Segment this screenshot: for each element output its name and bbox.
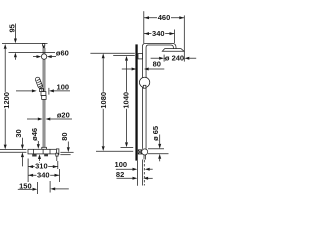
svg-text:ø20: ø20 bbox=[57, 111, 70, 120]
dim 100 (right view) bbox=[115, 160, 153, 171]
ext line head right bbox=[183, 15, 185, 61]
svg-text:310: 310 bbox=[35, 162, 48, 171]
dim ø65 bbox=[151, 126, 161, 161]
dim 310 bbox=[28, 159, 58, 183]
dim 95 bbox=[8, 24, 17, 60]
dim 80 (left view) bbox=[60, 132, 70, 152]
fitting below bar right bbox=[44, 154, 48, 156]
hand shower ball (side) bbox=[139, 77, 149, 88]
dim ø240 bbox=[151, 54, 197, 63]
supply pipe below valve bbox=[143, 155, 146, 186]
ø46 flange bbox=[42, 147, 47, 149]
dim ø20 bbox=[27, 111, 72, 121]
svg-text:30: 30 bbox=[14, 129, 23, 137]
dim 1080 bbox=[90, 53, 134, 151]
shower head side view bbox=[162, 49, 184, 52]
svg-text:100: 100 bbox=[57, 83, 70, 92]
spout center reference bbox=[38, 154, 41, 163]
ext line pipe (top) bbox=[143, 11, 145, 43]
holder clamp bbox=[41, 92, 46, 96]
supply center dashed bbox=[143, 160, 145, 186]
dim 1040 bbox=[113, 56, 135, 148]
riser pipe + arm inner bbox=[146, 45, 173, 149]
dim 340 (right view) bbox=[144, 29, 175, 43]
svg-text:1040: 1040 bbox=[122, 92, 131, 109]
ext line column top (left view) bbox=[2, 43, 48, 45]
wall bracket bbox=[138, 54, 143, 59]
dim 460 bbox=[144, 13, 184, 22]
dim 1200 bbox=[2, 44, 11, 149]
ext line holder top (left view) bbox=[9, 51, 56, 53]
svg-text:340: 340 bbox=[152, 29, 165, 38]
dim ø60 bbox=[33, 49, 69, 59]
svg-text:ø 65: ø 65 bbox=[151, 126, 160, 141]
valve ext lines bbox=[148, 149, 169, 154]
svg-text:1200: 1200 bbox=[2, 92, 11, 109]
svg-text:82: 82 bbox=[116, 170, 124, 179]
fitting below bar left bbox=[32, 154, 36, 157]
dim 340 (left view) bbox=[28, 169, 59, 182]
mixer bar bbox=[28, 149, 56, 154]
shower column cap bbox=[43, 44, 45, 49]
hose piece below right cap bbox=[56, 153, 58, 156]
dim 100 (left view) bbox=[16, 83, 70, 95]
riser pipe + arm outer bbox=[143, 43, 176, 149]
dim 30 bbox=[14, 129, 24, 166]
wall bbox=[135, 44, 137, 160]
hand shower handle + knob bbox=[40, 87, 44, 91]
mixer right end cap bbox=[56, 149, 59, 155]
ball joint bbox=[41, 54, 46, 59]
ext lines mixer (left side) bbox=[0, 150, 26, 153]
svg-text:100: 100 bbox=[115, 160, 128, 169]
svg-text:460: 460 bbox=[158, 13, 171, 22]
slider bbox=[42, 96, 46, 100]
hand shower head bbox=[35, 77, 43, 89]
dim 82 bbox=[116, 170, 153, 180]
svg-text:80: 80 bbox=[153, 60, 161, 69]
svg-text:ø60: ø60 bbox=[56, 49, 69, 58]
svg-text:80: 80 bbox=[60, 132, 69, 140]
svg-text:340: 340 bbox=[37, 171, 50, 180]
ext line mixer axis (right side) bbox=[60, 151, 73, 153]
svg-text:95: 95 bbox=[8, 24, 17, 32]
wall lower line bbox=[137, 161, 139, 186]
svg-text:ø46: ø46 bbox=[30, 128, 39, 141]
valve body ø65 bbox=[138, 149, 148, 155]
dim 80 (right view) bbox=[122, 60, 165, 71]
svg-text:ø 240: ø 240 bbox=[165, 54, 184, 63]
svg-text:1080: 1080 bbox=[99, 92, 108, 109]
shower column rod bbox=[43, 48, 45, 147]
dim ø46 bbox=[30, 128, 40, 149]
dim 150 bbox=[18, 181, 69, 194]
